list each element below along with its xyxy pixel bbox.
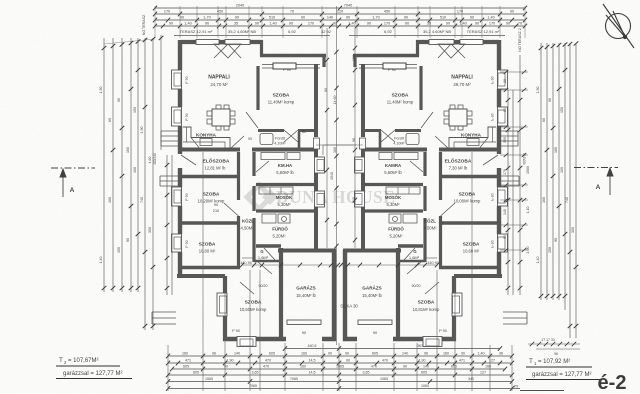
wall: kitchen/entry y150 [178,148,318,152]
svg-text:1,50: 1,50 [99,87,103,94]
svg-text:1,40: 1,40 [348,21,355,25]
svg-text:96: 96 [554,352,558,356]
svg-text:605: 605 [451,365,457,369]
thin details [152,36,330,347]
svg-text:170: 170 [164,9,170,13]
svg-text:350: 350 [503,137,507,143]
svg-text:11,40M² komp: 11,40M² komp [387,100,414,105]
svg-text:150: 150 [352,55,356,61]
svg-text:340: 340 [468,377,474,381]
svg-text:96: 96 [499,352,503,356]
wall: corridor x238.5 [237,152,240,267]
svg-text:14,5: 14,5 [309,359,316,363]
svg-text:470: 470 [382,359,388,363]
svg-text:90: 90 [180,15,184,19]
svg-text:605: 605 [193,371,199,375]
svg-text:MOSÓK: MOSÓK [385,195,402,200]
svg-text:90: 90 [446,21,450,25]
svg-text:300: 300 [571,227,575,233]
svg-text:1,00: 1,00 [526,247,530,254]
svg-text:20: 20 [503,79,507,83]
svg-text:605: 605 [372,352,378,356]
svg-text:GARÁZS: GARÁZS [296,285,315,291]
svg-text:SZOBA: SZOBA [245,300,262,306]
svg-text:60: 60 [108,118,112,122]
wall: nappali top [180,40,263,44]
svg-text:510: 510 [269,15,275,19]
svg-text:é-2: é-2 [598,372,627,394]
svg-text:160,5: 160,5 [308,344,317,348]
svg-text:90: 90 [126,238,130,242]
svg-text:KAMRA: KAMRA [385,163,402,168]
svg-text:90: 90 [403,365,407,369]
svg-text:210: 210 [213,209,219,213]
svg-text:90: 90 [503,108,507,112]
svg-text:NAPPALI: NAPPALI [451,75,473,81]
wall: left outer [178,40,182,277]
svg-text:140: 140 [234,352,240,356]
svg-text:Fürdő: Fürdő [275,137,285,141]
svg-text:1,10: 1,10 [526,207,530,214]
svg-text:90: 90 [405,21,409,25]
svg-text:605: 605 [183,365,189,369]
svg-text:367: 367 [417,344,423,348]
svg-text:35: 35 [234,21,238,25]
svg-text:90: 90 [345,352,349,356]
svg-text:Fürdő: Fürdő [394,137,404,141]
svg-text:160: 160 [126,147,130,153]
svg-text:170: 170 [503,169,507,175]
svg-text:90: 90 [475,21,479,25]
svg-text:1,90: 1,90 [227,359,234,363]
svg-text:90: 90 [373,331,377,335]
right dimension column [500,43,576,338]
svg-text:5,60M² lb: 5,60M² lb [276,170,294,175]
svg-text:NO TERASZ: NO TERASZ [142,14,146,35]
svg-text:170: 170 [384,21,390,25]
section marker A left [51,168,95,197]
svg-text:6,92: 6,92 [384,29,393,34]
svg-text:35,2 4,60M² NB: 35,2 4,60M² NB [228,29,256,34]
svg-text:MOSÓK: MOSÓK [276,195,293,200]
svg-text:4,50M²: 4,50M² [423,226,437,231]
top short vertical connectors [155,6,525,38]
svg-text:605: 605 [421,371,427,375]
svg-text:SZOBA: SZOBA [203,192,220,198]
svg-text:160: 160 [542,197,546,203]
svg-text:SZOBA: SZOBA [463,242,480,248]
svg-text:160: 160 [301,352,307,356]
centre dimension lines [327,6,355,345]
svg-text:3,65: 3,65 [363,371,370,375]
svg-text:P 90: P 90 [185,113,189,120]
svg-text:32 92: 32 92 [321,29,332,34]
svg-text:400/240: 400/240 [153,153,157,165]
svg-text:90: 90 [404,15,408,19]
left dimension column [104,35,172,330]
svg-text:SZOBA: SZOBA [273,93,290,99]
svg-text:90: 90 [503,235,507,239]
svg-text:ELŐSZOBA: ELŐSZOBA [445,158,472,165]
svg-text:TERASZ 12,91 m²: TERASZ 12,91 m² [180,29,213,34]
svg-text:1,40: 1,40 [184,21,191,25]
svg-text:KONYHA: KONYHA [196,133,217,138]
svg-text:P 90: P 90 [185,193,189,200]
svg-text:NO TERASZ 2: NO TERASZ 2 [518,28,522,52]
svg-text:4,90: 4,90 [140,127,144,134]
svg-text:35: 35 [427,21,431,25]
section marker A right [574,168,618,196]
svg-text:29,70 M²: 29,70 M² [453,82,471,87]
svg-text:KONYHA: KONYHA [461,133,482,138]
svg-text:96: 96 [212,352,216,356]
svg-text:4,10M²: 4,10M² [393,142,405,146]
svg-text:160: 160 [333,147,337,153]
svg-text:SZOBA: SZOBA [199,242,216,248]
svg-text:90: 90 [205,21,209,25]
svg-text:ELŐSZOBA: ELŐSZOBA [203,158,230,165]
svg-text:1,70: 1,70 [372,15,379,19]
svg-text:1,6M²: 1,6M² [258,255,269,260]
svg-text:740: 740 [565,197,569,203]
svg-text:= 107,92 M²: = 107,92 M² [538,359,570,365]
svg-text:140: 140 [327,15,333,19]
svg-text:1,6M²: 1,6M² [409,255,420,260]
room labels left unit [196,75,317,313]
svg-text:90: 90 [117,98,121,102]
svg-text:1,40: 1,40 [269,21,276,25]
svg-text:1,40: 1,40 [459,21,466,25]
svg-text:11,40M² komp: 11,40M² komp [268,100,295,105]
svg-text:1060: 1060 [421,384,429,388]
svg-text:1065: 1065 [205,377,213,381]
svg-text:605: 605 [269,352,275,356]
svg-text:12,81 M² lb: 12,81 M² lb [205,166,227,171]
svg-text:T: T [59,357,63,364]
svg-text:KÖZL: KÖZL [242,219,254,224]
area summary right [526,358,600,380]
svg-text:17 17 33: 17 17 33 [541,338,554,342]
svg-text:90: 90 [224,365,228,369]
svg-text:160: 160 [300,365,306,369]
svg-text:160: 160 [108,197,112,203]
svg-text:SILKA 30: SILKA 30 [340,304,358,309]
svg-text:70: 70 [518,21,522,25]
svg-text:A: A [596,184,601,191]
svg-text:10,81M² komp: 10,81M² komp [413,307,440,312]
svg-text:GARÁZS: GARÁZS [362,285,381,291]
svg-text:P 90: P 90 [185,240,189,247]
svg-text:4,60: 4,60 [148,157,152,164]
svg-text:SZOBA: SZOBA [392,93,409,99]
svg-text:7040: 7040 [344,3,352,7]
svg-text:3,65: 3,65 [252,371,259,375]
svg-text:1,70: 1,70 [203,15,210,19]
svg-text:90: 90 [367,21,371,25]
svg-text:60: 60 [542,118,546,122]
svg-text:1,40: 1,40 [99,257,103,264]
svg-text:G: G [413,249,416,254]
svg-text:120: 120 [337,9,343,13]
svg-text:KÖZL: KÖZL [424,219,436,224]
svg-text:100: 100 [560,167,564,173]
wall: garage top y246 [256,244,281,247]
svg-text:90: 90 [324,88,328,92]
svg-text:90: 90 [352,138,356,142]
svg-text:90: 90 [470,15,474,19]
svg-text:5,30M²: 5,30M² [277,202,291,207]
svg-text:10,00M² komp: 10,00M² komp [454,199,481,204]
svg-text:P 90: P 90 [283,68,291,72]
svg-text:garázzsal = 127,77 M²: garázzsal = 127,77 M² [63,371,123,377]
svg-text:P 90: P 90 [185,76,189,83]
svg-text:90: 90 [302,331,306,335]
svg-text:7065: 7065 [290,377,298,381]
svg-text:A: A [70,187,75,194]
svg-text:471: 471 [459,359,465,363]
svg-text:127: 127 [480,371,486,375]
svg-text:90: 90 [510,9,514,13]
svg-text:15,40M² lb: 15,40M² lb [296,293,316,298]
svg-text:14,60: 14,60 [333,96,337,105]
wall: G closet bottom [254,260,282,263]
svg-text:5,20M²: 5,20M² [272,234,286,239]
svg-text:90: 90 [461,352,465,356]
wall: right outer to centre [314,64,318,250]
svg-text:10,60M² komp: 10,60M² komp [240,307,267,312]
szoba top window band [262,63,320,69]
svg-text:96: 96 [424,352,428,356]
watermark Duna House logo [247,185,395,209]
svg-text:2040: 2040 [236,3,244,7]
bottom vertical connectors [168,152,512,391]
svg-text:470: 470 [265,359,271,363]
svg-text:90: 90 [214,203,218,207]
area summary left [56,357,132,379]
svg-text:170: 170 [308,21,314,25]
svg-text:90: 90 [248,137,252,141]
svg-text:1500: 1500 [526,166,530,174]
svg-text:10,60 M²: 10,60 M² [199,249,216,254]
svg-text:P 90: P 90 [439,329,447,333]
svg-text:90: 90 [554,238,558,242]
wall: bottom y339 [223,337,336,341]
svg-text:KM.HA: KM.HA [278,163,293,168]
svg-text:80: 80 [302,130,306,134]
svg-text:300: 300 [148,227,152,233]
svg-text:G: G [260,249,263,254]
wall: kamra bottom y184.5 [256,183,318,186]
svg-text:FÜRDŐ: FÜRDŐ [388,227,404,232]
svg-text:35,2 4,60M² NB: 35,2 4,60M² NB [423,29,451,34]
svg-text:470: 470 [263,365,269,369]
svg-text:1,90: 1,90 [419,359,426,363]
svg-text:TERASZ 12,91 m²: TERASZ 12,91 m² [467,29,500,34]
svg-text:24,70 M²: 24,70 M² [210,82,228,87]
svg-text:SZOBA: SZOBA [418,300,435,306]
svg-text:10,60 M²: 10,60 M² [463,249,480,254]
svg-text:7,30 M² lb: 7,30 M² lb [449,166,468,171]
svg-text:150: 150 [133,107,137,113]
svg-text:1,40: 1,40 [478,352,485,356]
wall: szoba1 bottom y223 [178,221,240,224]
svg-text:P 90: P 90 [232,329,240,333]
svg-text:4,50M²: 4,50M² [240,226,254,231]
svg-text:SZOBA: SZOBA [459,192,476,198]
svg-text:450: 450 [384,9,390,13]
right unit geometry (mirror) [343,36,527,347]
mid dimension rows [316,145,356,155]
svg-text:garázzsal = 127,77 M²: garázzsal = 127,77 M² [532,372,592,378]
svg-text:150: 150 [560,107,564,113]
left unit geometry [152,36,336,347]
svg-text:140: 140 [402,352,408,356]
svg-text:1065: 1065 [336,365,344,369]
wall: outer step y276 [177,274,225,278]
svg-text:510: 510 [440,15,446,19]
wall: szoba/fürdő y128 [258,129,316,132]
svg-text:15,40M² lb: 15,40M² lb [362,293,382,298]
svg-text:1540: 1540 [330,172,334,180]
top dimension chains [153,3,527,28]
room labels right unit [340,75,481,313]
svg-text:470: 470 [371,365,377,369]
wall: bottom room left x225 [223,276,227,341]
svg-text:1065: 1065 [380,377,388,381]
svg-text:160: 160 [554,147,558,153]
svg-text:NAPPALI: NAPPALI [208,75,230,81]
svg-text:90: 90 [346,359,350,363]
wall: garage party x330.5 [332,250,336,341]
svg-text:160: 160 [182,352,188,356]
small door/value annotations [180,29,500,335]
svg-text:10,20M² komp: 10,20M² komp [198,199,225,204]
svg-text:14,5: 14,5 [309,371,316,375]
svg-text:m: m [514,384,518,389]
svg-text:150: 150 [548,247,552,253]
svg-text:471: 471 [185,359,191,363]
bottom dimension chains [166,344,520,391]
svg-text:DUNA HOUSE: DUNA HOUSE [276,187,395,207]
wall: step to szoba top [260,40,263,56]
svg-text:510: 510 [352,197,356,203]
svg-text:FÜRDŐ: FÜRDŐ [272,227,288,232]
svg-text:1,40: 1,40 [487,15,494,19]
svg-text:6,92: 6,92 [288,29,297,34]
svg-text:5,20M²: 5,20M² [389,234,403,239]
svg-text:740: 740 [140,197,144,203]
svg-text:= 107,67M²: = 107,67M² [68,358,99,364]
svg-text:5,30M²: 5,30M² [386,202,400,207]
svg-text:90: 90 [346,15,350,19]
svg-text:T: T [529,358,533,365]
svg-text:70: 70 [290,9,294,13]
svg-text:90: 90 [289,21,293,25]
svg-text:90: 90 [255,21,259,25]
svg-text:4,10M²: 4,10M² [274,142,286,146]
svg-text:140: 140 [503,209,507,215]
svg-text:5,60M² lb: 5,60M² lb [384,170,402,175]
svg-text:90: 90 [169,21,173,25]
wall: garage left x281 [279,248,283,341]
svg-text:1,40: 1,40 [536,257,540,264]
svg-text:90: 90 [328,352,332,356]
svg-text:170: 170 [489,21,495,25]
svg-text:90/20: 90/20 [412,284,421,288]
svg-text:150: 150 [117,247,121,253]
svg-text:1,50: 1,50 [536,87,540,94]
svg-text:90: 90 [506,21,510,25]
svg-text:140: 140 [423,365,429,369]
wall: előszoba bottom y176 [178,175,240,178]
svg-text:160: 160 [443,352,449,356]
north arrow [603,4,634,48]
svg-text:90: 90 [301,15,305,19]
svg-text:100: 100 [133,167,137,173]
wall: nappali-szoba divider [256,66,259,110]
svg-text:P 90: P 90 [388,68,396,72]
wall: szoba2 bottom y267.5 [178,266,240,269]
wall: mosók bottom y211 [256,209,318,212]
svg-text:90: 90 [548,98,552,102]
wall: közl x254 [252,152,255,262]
svg-text:90: 90 [235,15,239,19]
